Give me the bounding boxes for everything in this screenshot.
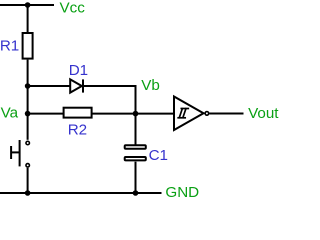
junction D1 branch xyxy=(25,83,31,89)
junction top rail xyxy=(25,2,31,8)
resistor R1 xyxy=(23,33,33,59)
resistor R2 xyxy=(64,108,92,118)
svg-text:D1: D1 xyxy=(69,62,88,79)
wire bottom rail GND xyxy=(0,192,162,194)
svg-text:GND: GND xyxy=(165,184,199,200)
switch S1 button cap xyxy=(10,146,12,159)
op-amp U1 schmitt trigger inverter body xyxy=(174,97,204,131)
switch S1 wire lower xyxy=(27,168,29,193)
capacitor C1 plate top xyxy=(125,145,146,148)
svg-text:C1: C1 xyxy=(149,147,168,164)
wire D1 rail xyxy=(28,85,136,87)
diode D1 xyxy=(70,79,83,92)
wire cap to ground xyxy=(135,162,137,193)
svg-text:Vout: Vout xyxy=(248,105,279,122)
junction Vb node xyxy=(133,111,139,117)
U1 output bubble xyxy=(205,112,209,116)
svg-text:Vcc: Vcc xyxy=(60,0,86,16)
junction bottom left xyxy=(25,190,31,196)
junction Va node xyxy=(25,111,31,117)
capacitor C1 plate bottom xyxy=(125,157,146,160)
wire top rail Vcc xyxy=(0,4,54,6)
switch S1 contact bottom xyxy=(26,164,30,168)
switch S1 contact top xyxy=(26,141,30,145)
svg-text:Va: Va xyxy=(1,105,19,122)
wire Vb vertical xyxy=(135,85,137,145)
switch S1 actuator crossbar xyxy=(11,151,20,153)
svg-text:R2: R2 xyxy=(68,122,87,139)
junction bottom right xyxy=(133,190,139,196)
U1 hysteresis glyph xyxy=(178,109,188,118)
svg-text:R1: R1 xyxy=(0,38,19,55)
wire Va rail xyxy=(28,113,175,115)
wire left vertical mid xyxy=(27,60,29,114)
wire output xyxy=(209,113,243,115)
svg-text:Vb: Vb xyxy=(141,77,160,94)
switch S1 bridge bar xyxy=(19,140,21,166)
wire left vertical upper xyxy=(27,5,29,33)
switch S1 wire upper xyxy=(27,114,29,140)
